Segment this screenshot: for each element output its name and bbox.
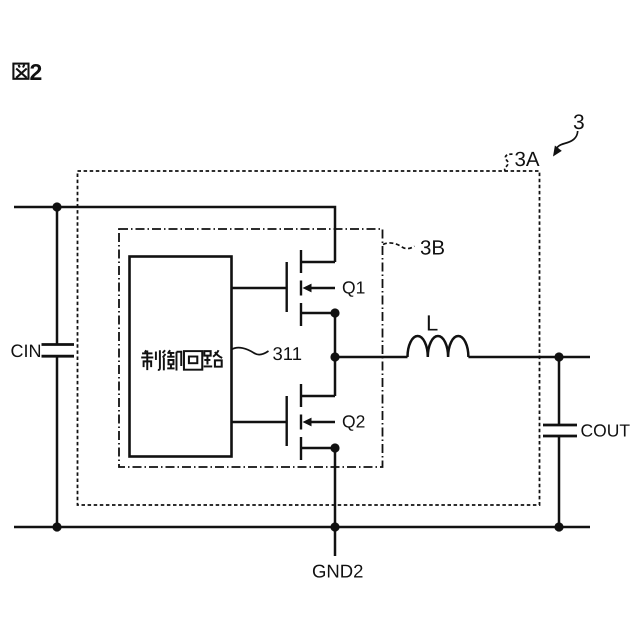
svg-text:3: 3 — [573, 111, 585, 134]
svg-text:2: 2 — [30, 59, 43, 85]
svg-text:CIN: CIN — [11, 341, 42, 361]
svg-text:3B: 3B — [420, 237, 445, 260]
svg-text:L: L — [426, 311, 438, 336]
svg-text:COUT: COUT — [581, 421, 631, 441]
svg-text:3A: 3A — [515, 148, 540, 171]
svg-text:Q1: Q1 — [342, 278, 365, 298]
svg-text:311: 311 — [273, 343, 303, 364]
svg-text:Q2: Q2 — [342, 412, 365, 432]
svg-text:GND2: GND2 — [312, 561, 363, 582]
